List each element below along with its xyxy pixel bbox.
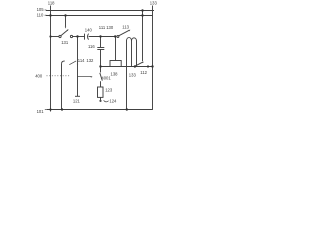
svg-text:130: 130 — [106, 25, 114, 30]
svg-text:121: 121 — [73, 98, 81, 103]
svg-text:112: 112 — [140, 70, 147, 75]
svg-text:400: 400 — [35, 74, 43, 79]
svg-text:105: 105 — [37, 7, 45, 12]
svg-text:116: 116 — [88, 44, 95, 49]
svg-text:123: 123 — [105, 87, 113, 92]
svg-text:4001: 4001 — [101, 75, 111, 80]
svg-text:140: 140 — [85, 27, 93, 32]
svg-text:101: 101 — [37, 109, 45, 114]
svg-text:111: 111 — [99, 25, 106, 30]
svg-text:114: 114 — [78, 58, 85, 63]
svg-text:124: 124 — [109, 98, 117, 103]
svg-text:131: 131 — [61, 40, 69, 45]
svg-text:133: 133 — [129, 73, 137, 78]
svg-text:110: 110 — [37, 12, 44, 17]
svg-text:113: 113 — [122, 25, 129, 30]
svg-text:132: 132 — [86, 58, 94, 63]
svg-text:133: 133 — [150, 1, 158, 6]
svg-text:138: 138 — [111, 72, 119, 77]
svg-text:118: 118 — [48, 0, 55, 5]
